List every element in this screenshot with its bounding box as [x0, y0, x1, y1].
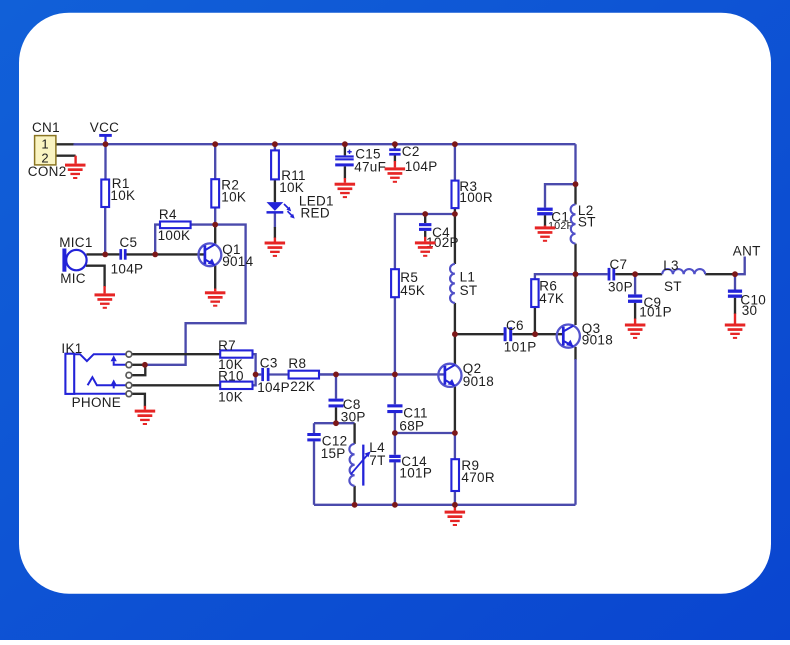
node junction	[352, 502, 358, 508]
ground below MIC1	[95, 286, 116, 309]
capacitor C9	[628, 294, 672, 319]
svg-text:C3: C3	[260, 355, 278, 370]
svg-text:RED: RED	[301, 205, 330, 220]
capacitor C12	[307, 433, 347, 461]
resistor R3	[452, 179, 493, 208]
ground below Q1	[205, 289, 226, 307]
svg-text:47uF: 47uF	[354, 160, 386, 175]
resistor R5	[391, 269, 425, 298]
svg-text:7T: 7T	[369, 453, 385, 468]
wire base node up to R4 left	[155, 225, 160, 255]
wire ANT stub	[735, 257, 745, 275]
wire C9 to ground	[634, 303, 636, 319]
node junction	[152, 252, 158, 258]
wire C3 left	[256, 373, 262, 375]
svg-text:CON2: CON2	[28, 164, 67, 179]
wire R6 top	[535, 274, 576, 279]
capacitor C8	[329, 397, 366, 425]
ground below C4	[415, 237, 436, 257]
svg-text:15P: 15P	[321, 446, 346, 461]
svg-text:L3: L3	[663, 258, 679, 273]
svg-text:C6: C6	[506, 318, 524, 333]
wire Q2 collector node to C6	[455, 333, 504, 335]
node junction	[732, 271, 738, 277]
svg-text:104P: 104P	[405, 159, 438, 174]
wire C4 pin	[424, 214, 426, 223]
ground below bottom rail	[445, 505, 466, 526]
wire R9 top	[454, 433, 456, 459]
wire Q2 collector pin	[454, 334, 456, 364]
wire L3 to ANT node	[705, 273, 735, 275]
svg-text:ST: ST	[578, 214, 596, 229]
node junction	[212, 222, 218, 228]
node junction	[392, 430, 398, 436]
phone jack IK1	[61, 341, 131, 410]
ground below C9	[625, 319, 646, 339]
capacitor C15 polarized	[335, 147, 386, 175]
wire R11 to LED	[274, 179, 276, 202]
svg-text:2: 2	[41, 150, 49, 165]
svg-text:104P: 104P	[111, 262, 144, 277]
capacitor C14	[389, 454, 432, 481]
node junction	[452, 430, 458, 436]
wire LED cathode down	[274, 214, 276, 228]
wire C5 to base node	[126, 253, 155, 255]
svg-text:9018: 9018	[582, 333, 613, 348]
wire C12 bottom to rail	[313, 441, 315, 505]
wire row 423	[314, 422, 355, 424]
wire R2 bottom to node	[214, 208, 216, 225]
svg-text:R10: R10	[218, 369, 244, 384]
node junction	[342, 141, 348, 147]
svg-text:R4: R4	[159, 207, 177, 222]
wire R11 top	[274, 144, 276, 150]
svg-text:100R: 100R	[459, 190, 492, 205]
wire Q3 collector node to C7	[576, 273, 608, 275]
wire Q2 base row	[319, 373, 445, 375]
wire L2 bottom pin	[574, 244, 576, 275]
wire C1 to ground	[544, 215, 546, 226]
capacitor C1	[537, 208, 574, 233]
svg-text:9014: 9014	[222, 254, 253, 269]
wire C10 to ground	[734, 298, 736, 314]
resistor R8	[288, 356, 319, 394]
microphone MIC1	[59, 235, 92, 286]
svg-text:CN1: CN1	[32, 120, 60, 135]
resistor R11	[271, 150, 306, 195]
wire C11 bottom	[394, 413, 396, 433]
svg-text:IK1: IK1	[61, 341, 82, 356]
svg-text:ST: ST	[460, 283, 478, 298]
capacitor C2	[389, 144, 437, 174]
svg-text:C2: C2	[402, 144, 420, 159]
svg-text:101P: 101P	[399, 466, 432, 481]
transistor Q3	[557, 321, 613, 348]
resistor R6	[531, 278, 564, 307]
node junction	[452, 211, 458, 217]
resistor R10	[218, 369, 252, 405]
wire R4 right to collector node	[191, 223, 216, 225]
node junction	[392, 141, 398, 147]
wire jack pin5 to ground	[132, 394, 145, 407]
svg-text:10K: 10K	[221, 189, 246, 204]
svg-text:R8: R8	[288, 356, 306, 371]
wire C8 top	[335, 374, 337, 398]
wire R3 top	[454, 144, 456, 180]
svg-text:9018: 9018	[463, 374, 494, 389]
wire C9 pin	[634, 274, 636, 294]
ground below C15	[335, 178, 356, 198]
wire R6 node to Q3 base	[535, 333, 563, 335]
wire C3 to R8	[269, 373, 288, 375]
svg-text:101P: 101P	[639, 305, 672, 320]
svg-text:MIC: MIC	[60, 271, 86, 286]
inductor L1	[450, 264, 477, 303]
wire emitter node row to C11	[395, 432, 455, 434]
wire C2 pin	[394, 144, 396, 148]
wire Q1 emitter to ground	[214, 265, 216, 289]
node junction	[102, 252, 108, 258]
resistor R2	[211, 177, 246, 207]
wire node to C5	[105, 253, 119, 255]
svg-text:10K: 10K	[218, 390, 243, 405]
capacitor C3	[257, 355, 290, 395]
ground below LED1	[265, 238, 286, 257]
svg-text:47K: 47K	[539, 291, 564, 306]
inductor L2	[571, 203, 596, 244]
wire node row 214	[395, 214, 455, 269]
wire C2 to ground	[394, 155, 396, 161]
svg-text:VCC: VCC	[90, 120, 119, 135]
wire L1 bottom	[454, 303, 456, 334]
svg-text:100K: 100K	[158, 228, 191, 243]
svg-text:30P: 30P	[341, 409, 366, 424]
wire MIC lower to ground	[86, 266, 105, 287]
node junction	[452, 502, 458, 508]
svg-text:10K: 10K	[110, 188, 135, 203]
wire Q3 collector	[574, 274, 576, 325]
ground below CON2	[65, 156, 86, 179]
resistor R9	[451, 458, 494, 491]
wire jack pin1 to R7	[132, 353, 220, 355]
wire R7 R10 right join	[253, 354, 256, 385]
resistor R4	[158, 207, 191, 243]
wire R5 bottom to base row	[394, 297, 396, 374]
wire C6 to R6 node	[512, 333, 535, 335]
node junction	[392, 372, 398, 378]
wire C4 to ground	[424, 231, 426, 237]
svg-text:68P: 68P	[399, 418, 424, 433]
node junction	[253, 372, 259, 378]
wire Q1 collector	[214, 225, 216, 244]
wire jack pin4 to R10	[132, 384, 220, 386]
capacitor C5	[111, 235, 144, 277]
ground below jack pin5	[135, 406, 156, 425]
node junction	[333, 372, 339, 378]
wire bottom rail	[314, 504, 576, 506]
connector CN1	[28, 120, 67, 179]
wire C9 node to L3	[635, 273, 662, 275]
wire C11 top	[394, 374, 396, 404]
svg-text:C5: C5	[120, 235, 138, 250]
svg-text:30: 30	[742, 303, 758, 318]
wire right rail down from top	[574, 144, 576, 184]
node junction	[573, 181, 579, 187]
node junction	[212, 141, 218, 147]
inductor L3	[662, 258, 705, 294]
wire Q2 emitter to node	[454, 386, 456, 433]
wire jack pin3 up to node	[132, 366, 146, 375]
node junction	[452, 141, 458, 147]
wire R3 bottom	[454, 208, 456, 214]
capacitor C7	[608, 257, 633, 295]
wire C10 pin	[734, 274, 736, 289]
node junction	[632, 271, 638, 277]
svg-text:PHONE: PHONE	[72, 395, 122, 410]
ground below C10	[725, 314, 746, 339]
svg-text:104P: 104P	[257, 380, 290, 395]
node junction	[272, 141, 278, 147]
wire Q3 emitter down to rail	[574, 347, 576, 360]
svg-text:101P: 101P	[504, 339, 537, 354]
wire R6 bottom	[534, 307, 536, 334]
wire R1 top	[104, 144, 106, 179]
node junction	[142, 362, 148, 368]
wire jack pin2 to node	[132, 364, 145, 366]
wire R2 top	[214, 144, 216, 179]
wire C14 bottom	[394, 462, 396, 505]
svg-text:C7: C7	[610, 257, 628, 272]
wire L4 bottom	[353, 486, 355, 505]
wire CN1 pin1 to rail	[56, 143, 75, 145]
svg-text:R7: R7	[218, 338, 236, 353]
node junction	[452, 331, 458, 337]
node junction	[333, 420, 339, 426]
capacitor C4	[419, 223, 459, 250]
power VCC symbol	[90, 120, 119, 144]
capacitor C10	[728, 290, 766, 318]
wire C8 bottom	[335, 407, 337, 423]
node junction	[573, 271, 579, 277]
svg-text:45K: 45K	[400, 283, 425, 298]
svg-text:470R: 470R	[461, 470, 494, 485]
wire R8 to base node	[319, 373, 336, 375]
wire VCC top rail	[106, 143, 576, 145]
node junction	[392, 502, 398, 508]
wire MIC out to node	[86, 253, 105, 255]
node junction	[422, 211, 428, 217]
transistor Q2	[438, 361, 494, 389]
wire C1 branch	[545, 184, 576, 207]
wire R9 bottom	[454, 491, 456, 505]
wire collector loop to phone jack	[145, 225, 246, 365]
capacitor C6	[504, 318, 537, 354]
node junction	[532, 331, 538, 337]
LED LED1	[267, 193, 334, 220]
ground below C1	[535, 225, 556, 241]
capacitor C11	[387, 404, 428, 433]
resistor R1	[101, 176, 135, 207]
svg-text:22K: 22K	[290, 379, 315, 394]
wire CN1 pin2 stub	[56, 155, 76, 157]
node junction	[103, 141, 109, 147]
resistor R7	[218, 338, 252, 372]
wire R1 bottom to mic node	[104, 207, 106, 254]
svg-text:ANT: ANT	[733, 244, 761, 259]
wire C14 top	[394, 433, 396, 455]
ground below C2	[385, 161, 406, 183]
wire L1 top	[454, 214, 456, 264]
wire base node to Q1 base	[155, 253, 205, 255]
svg-text:ST: ST	[664, 279, 682, 294]
wire C15 pin	[344, 144, 346, 155]
wire L4 top	[353, 423, 355, 444]
wire L2 top pin	[574, 184, 576, 204]
wire C12 top	[313, 423, 315, 433]
svg-text:30P: 30P	[608, 280, 633, 295]
wire C7 to C9 node	[615, 273, 635, 275]
svg-text:MIC1: MIC1	[59, 235, 92, 250]
inductor L4 variable	[349, 440, 385, 486]
wire C15 to ground	[344, 166, 346, 178]
transistor Q1	[199, 242, 254, 269]
